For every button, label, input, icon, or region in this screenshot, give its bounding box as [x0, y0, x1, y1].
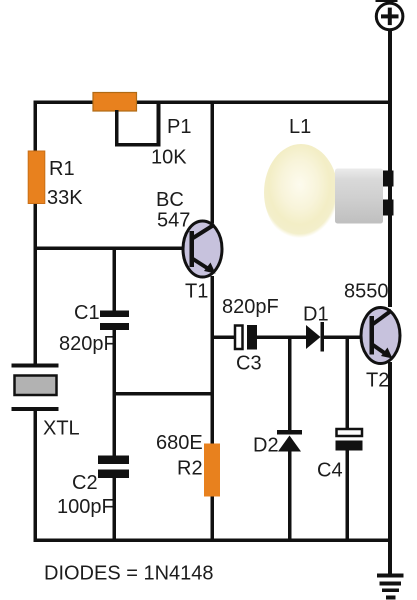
wire top horizontal rail: [34, 101, 393, 105]
resistor R2: [204, 444, 220, 497]
wire D2 branch vertical: [288, 339, 292, 430]
wire C1 branch vertical: [113, 248, 117, 311]
capacitor C3: [235, 326, 243, 350]
svg-text:820pF: 820pF: [59, 333, 116, 355]
svg-text:33K: 33K: [47, 187, 83, 209]
wire C4 branch vertical: [346, 339, 350, 428]
svg-text:T1: T1: [185, 281, 208, 303]
svg-text:P1: P1: [167, 116, 191, 138]
svg-text:C1: C1: [74, 302, 100, 324]
lamp L1 base: [335, 169, 383, 224]
wire P1 wiper up leg: [157, 102, 161, 147]
svg-text:T2: T2: [366, 370, 389, 392]
resistor R1: [28, 151, 45, 204]
wire C1 to C2 vertical: [113, 330, 117, 456]
transistor T2: [361, 308, 400, 364]
wire bottom horizontal rail: [34, 539, 393, 543]
svg-text:D1: D1: [303, 304, 329, 326]
svg-text:8550: 8550: [344, 281, 389, 303]
svg-text:D2: D2: [253, 435, 279, 457]
wire R2 to bottom rail: [211, 497, 215, 543]
svg-text:BC: BC: [156, 189, 184, 211]
svg-text:10K: 10K: [151, 147, 187, 169]
svg-text:R1: R1: [49, 158, 75, 180]
lamp L1 contact tab lower: [383, 200, 394, 216]
wire T1 emitter vertical (to R2): [211, 276, 215, 444]
potentiometer P1 body: [93, 93, 137, 112]
crystal XTL: [12, 364, 59, 412]
svg-text:C4: C4: [317, 460, 343, 482]
wire right rail (supply circle to T2 top): [388, 29, 392, 307]
svg-text:680E: 680E: [156, 432, 203, 454]
wire emitter node to C3: [213, 336, 236, 340]
svg-text:C3: C3: [236, 353, 262, 375]
wire left rail (R1 to XTL top plate): [34, 204, 38, 365]
svg-text:XTL: XTL: [43, 418, 80, 440]
svg-text:820pF: 820pF: [222, 296, 279, 318]
wire T2 emitter to bottom rail: [388, 362, 392, 542]
wire mid horizontal (C1/C2 node to emitter line): [114, 392, 214, 396]
wire D2 to bottom rail: [288, 452, 292, 542]
capacitor C1: [100, 311, 129, 318]
svg-text:C2: C2: [72, 472, 98, 494]
wire P1 wiper down leg: [115, 110, 119, 147]
wire C2 to bottom rail: [113, 478, 117, 542]
wire D1 to T2 base: [324, 336, 362, 340]
svg-text:DIODES = 1N4148: DIODES = 1N4148: [44, 563, 214, 585]
lamp L1 bulb glow: [264, 144, 338, 241]
wire ground stub: [388, 542, 392, 575]
wire left rail upper (top rail to R1): [34, 102, 38, 152]
wire T1 base horizontal: [35, 247, 192, 251]
capacitor C4: [336, 429, 363, 451]
diode D2: [277, 430, 302, 452]
capacitor C2: [98, 456, 129, 465]
wire left rail (XTL to bottom rail): [34, 411, 38, 542]
supply terminal circle +: [376, 0, 403, 30]
svg-text:R2: R2: [177, 458, 203, 480]
svg-text:547: 547: [157, 210, 190, 232]
lamp L1 contact tab upper: [383, 171, 394, 187]
wire C3 to D1: [257, 336, 306, 340]
wire T1 collector vertical: [211, 102, 215, 223]
ground symbol: [377, 574, 404, 600]
svg-text:100pF: 100pF: [57, 496, 114, 518]
diode D1: [306, 322, 324, 352]
wire P1 wiper bottom leg: [115, 143, 161, 147]
transistor T1: [183, 221, 222, 277]
svg-text:L1: L1: [289, 116, 311, 138]
wire C4 to bottom rail: [346, 451, 350, 542]
